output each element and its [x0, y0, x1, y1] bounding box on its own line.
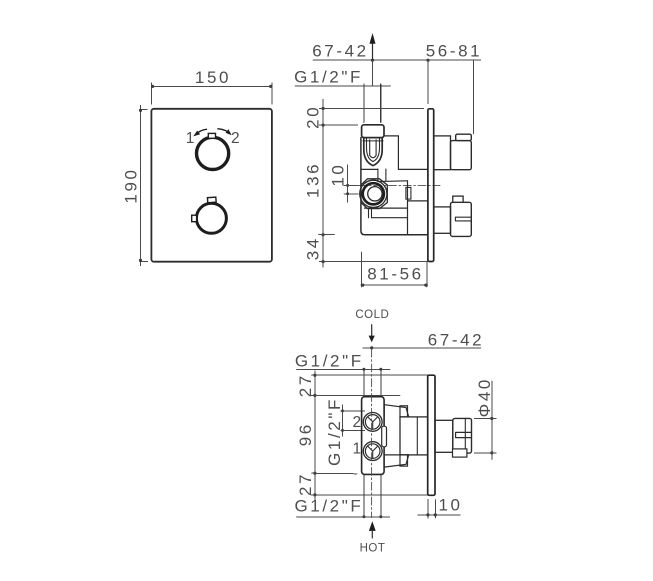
- dim 10 line: [347, 165, 349, 202]
- knob face line: [464, 418, 466, 453]
- horizontal centerline: [344, 184, 440, 186]
- upper block: [362, 136, 428, 170]
- top wing: [384, 405, 409, 417]
- cartridge circle outer: [360, 180, 387, 207]
- handle knob top view: [453, 418, 472, 453]
- handle T1 cap: [456, 134, 472, 140]
- crown outer: [364, 138, 382, 166]
- handle T2 slot: [455, 217, 471, 221]
- svg-text:1: 1: [186, 130, 195, 147]
- stem block: [400, 417, 428, 455]
- neck: [378, 169, 386, 181]
- top dim line 67-42 / 56-81: [313, 59, 481, 61]
- svg-text:10: 10: [328, 163, 347, 187]
- 67-42 dim line: [363, 347, 481, 349]
- chain dim line: [314, 371, 316, 500]
- centerline drop below dim: [372, 60, 374, 86]
- phi40 ext lines: [475, 419, 496, 453]
- knob lower tab: [453, 449, 467, 457]
- svg-text:96: 96: [296, 422, 315, 446]
- crown slot: [370, 140, 376, 158]
- arrowhead left: [193, 131, 200, 137]
- ext line 56-81 left: [427, 60, 429, 103]
- svg-text:COLD: COLD: [355, 309, 389, 321]
- cartridge bore: [368, 187, 382, 201]
- svg-text:136: 136: [304, 162, 323, 198]
- svg-text:2: 2: [352, 414, 361, 431]
- ext line plate bottom: [320, 261, 428, 263]
- valve body top view: [362, 397, 385, 475]
- handle T2 stem: [434, 207, 451, 233]
- svg-text:HOT: HOT: [360, 542, 386, 554]
- knob T2 top tab: [207, 197, 216, 203]
- svg-text:190: 190: [122, 167, 141, 203]
- wall plate top view: [428, 375, 435, 495]
- lower plate lines: [365, 208, 408, 218]
- 81-56 ext left: [361, 252, 363, 287]
- hot pipe ext lines: [364, 475, 381, 517]
- ext line 56-81 right: [473, 60, 475, 133]
- handle T1 knob: [451, 141, 472, 170]
- cold arrowhead: [369, 336, 375, 343]
- dot at centerline: [371, 59, 374, 62]
- cold pipe ext lines: [364, 369, 381, 396]
- bottom port block: [400, 455, 408, 466]
- crown inner: [367, 138, 380, 162]
- svg-text:81-56: 81-56: [367, 265, 423, 284]
- ext line cap top: [320, 124, 358, 126]
- dim 190 extension lines: [140, 110, 148, 262]
- ext plate bottom: [312, 494, 428, 496]
- G1/2"F top underline: [297, 368, 390, 370]
- G1/2"F bottom underline: [297, 516, 390, 518]
- 81-56 dim line: [361, 284, 428, 286]
- body left edge: [361, 138, 428, 235]
- ext body top: [312, 394, 401, 396]
- svg-text:27: 27: [296, 373, 315, 397]
- svg-text:10: 10: [438, 495, 462, 514]
- dim 10 ticks: [344, 185, 358, 193]
- dim 190 dots: [139, 109, 142, 112]
- knob T2 ring: [196, 203, 226, 233]
- svg-text:27: 27: [296, 472, 315, 496]
- svg-text:150: 150: [195, 68, 231, 87]
- svg-text:2: 2: [231, 130, 240, 147]
- handle stem top view: [435, 420, 453, 452]
- chain dim line: [322, 100, 324, 268]
- knob T2 left tab: [192, 215, 197, 222]
- dim 150 extension lines: [151, 83, 272, 104]
- svg-text:G1/2"F: G1/2"F: [295, 351, 364, 370]
- up arrow shaft: [372, 44, 374, 61]
- SIDE VIEW GROUP: [294, 33, 482, 287]
- ext plate top: [312, 374, 428, 376]
- mid block bottom: [408, 181, 428, 235]
- 81-56 ext right: [426, 262, 428, 287]
- top port block: [400, 406, 408, 417]
- valve cap: [362, 125, 384, 138]
- chain dots: [322, 107, 325, 110]
- hot arrow shaft: [371, 531, 373, 538]
- handle T2 knob: [451, 202, 472, 236]
- svg-text:34: 34: [304, 236, 323, 260]
- up arrowhead: [370, 33, 376, 44]
- arrow arc left: [198, 129, 207, 133]
- port 2 circle: [363, 413, 382, 432]
- port 1 circle: [363, 442, 382, 461]
- flow block top: [378, 180, 408, 183]
- plate thickness ext lines: [428, 499, 435, 518]
- dot at plate ext: [426, 59, 429, 62]
- foot: [369, 209, 372, 218]
- svg-text:67-42: 67-42: [312, 42, 368, 61]
- port 2 spokes: [368, 417, 378, 429]
- svg-text:G1/2"F: G1/2"F: [294, 67, 363, 86]
- svg-text:20: 20: [304, 105, 323, 129]
- ext line plate top: [320, 108, 424, 110]
- ext body bottom: [312, 472, 358, 475]
- nut outline: [362, 179, 388, 209]
- svg-text:Φ40: Φ40: [475, 377, 494, 417]
- svg-text:67-42: 67-42: [428, 330, 484, 349]
- svg-text:1: 1: [352, 440, 361, 457]
- port 1 spokes: [368, 446, 378, 458]
- handle T1 stem: [434, 136, 451, 170]
- ext line body bottom: [319, 234, 335, 236]
- svg-text:G1/2"F: G1/2"F: [325, 397, 344, 466]
- arrow arc right: [218, 129, 227, 131]
- stem inner line: [416, 417, 418, 455]
- dim 150 dots: [151, 85, 154, 88]
- svg-text:56-81: 56-81: [426, 42, 482, 61]
- port ext lines: [341, 411, 365, 431]
- G1/2"F underline: [295, 85, 391, 87]
- dim 150 line: [151, 85, 272, 87]
- hot arrowhead: [369, 521, 376, 531]
- right step: [406, 187, 411, 199]
- front panel plate: [151, 109, 272, 262]
- knob T1 top tab: [208, 133, 215, 138]
- phi40 dim line: [491, 381, 493, 459]
- cold arrow shaft: [371, 325, 373, 336]
- wall plate: [428, 109, 434, 262]
- dim 190 line: [140, 106, 142, 266]
- bottom wing: [384, 455, 409, 467]
- port dim line: [342, 405, 344, 436]
- inlet pipe stub lines: [364, 84, 381, 122]
- handle T2 tab: [453, 196, 463, 202]
- knob slot: [456, 432, 472, 437]
- vertical centerline: [371, 349, 373, 517]
- knob T1 ring: [197, 137, 229, 169]
- TOP VIEW GROUP: [294, 309, 495, 554]
- arrowhead right: [226, 129, 232, 135]
- FRONT VIEW GROUP: [122, 68, 273, 265]
- cartridge ring bold: [363, 183, 384, 204]
- svg-text:G1/2"F: G1/2"F: [294, 497, 363, 516]
- plate thickness dim line: [418, 514, 460, 516]
- boss between ports: [382, 426, 387, 447]
